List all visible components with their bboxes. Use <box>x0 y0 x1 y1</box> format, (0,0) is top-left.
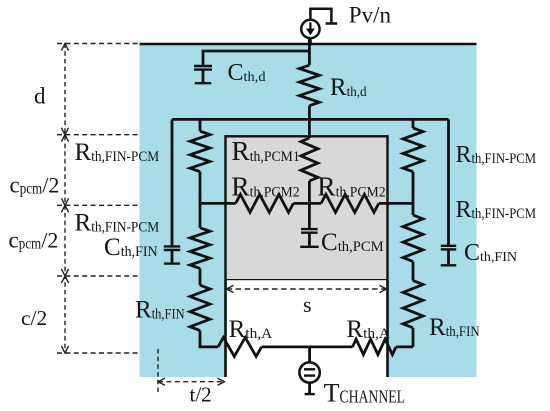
svg-text:t/2: t/2 <box>190 382 212 406</box>
svg-text:s: s <box>303 292 312 317</box>
svg-text:d: d <box>34 84 46 109</box>
svg-text:c/2: c/2 <box>21 306 47 330</box>
svg-text:Pv/n: Pv/n <box>349 3 392 28</box>
